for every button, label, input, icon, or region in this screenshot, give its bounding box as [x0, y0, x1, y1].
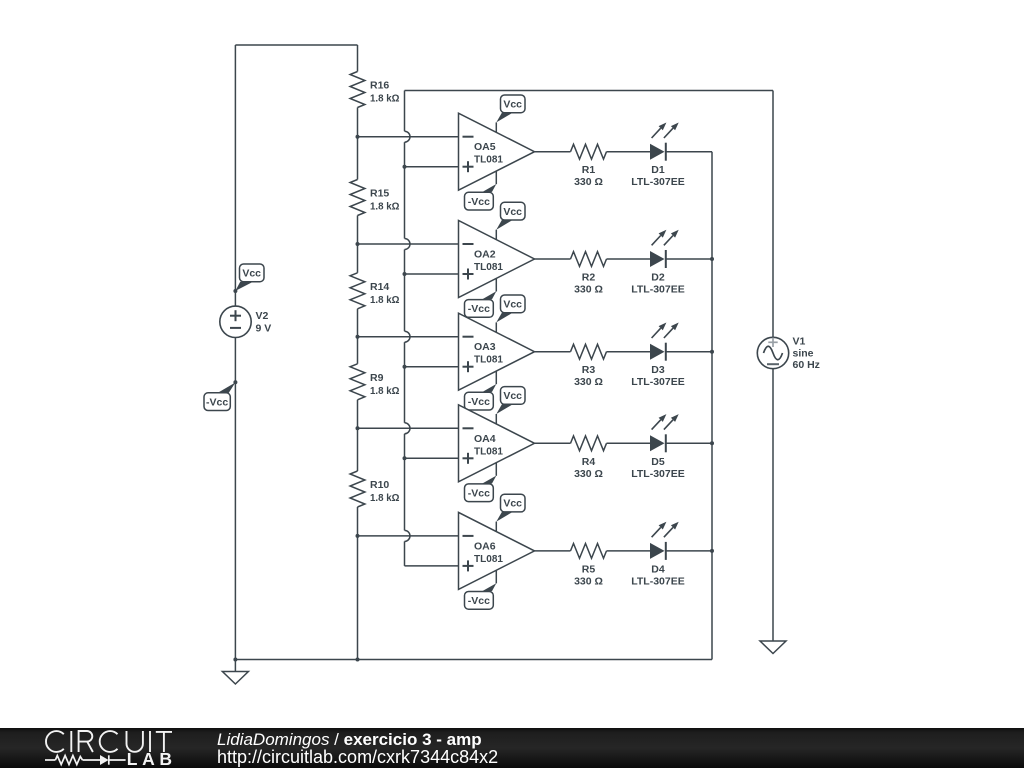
junction node: ladder tap 4 [356, 426, 360, 430]
wire LED output bus [711, 152, 713, 660]
ground (left, at bottom rail) [222, 660, 248, 685]
svg-text:LAB: LAB [127, 749, 177, 768]
wire right rail lower [772, 369, 774, 641]
junction node: ladder bottom [356, 658, 360, 662]
op-amp OA2 (TL081) [459, 221, 535, 298]
resistor R10 [350, 471, 399, 507]
svg-text:-Vcc: -Vcc [468, 303, 490, 315]
svg-text:LidiaDomingos / exercicio 3 -: LidiaDomingos / exercicio 3 - amp [217, 730, 482, 749]
junction node: signal bus tap 3 [403, 365, 407, 369]
svg-text:330 Ω: 330 Ω [574, 468, 603, 480]
wire signal bus segment 4 [404, 342, 406, 423]
voltage source V1 (sine 60 Hz) [757, 335, 820, 371]
footer bar [0, 728, 1024, 768]
power flag -Vcc (OA4 V- pin) [465, 463, 497, 502]
power flag Vcc (OA2 V+ pin) [496, 202, 525, 239]
LED D1 (LTL-307EE) [631, 123, 684, 189]
wire hop (bus over inverting-input wire, row 5) [405, 530, 411, 541]
svg-text:Vcc: Vcc [503, 99, 522, 111]
wire LED-to-bus row 3 [666, 351, 712, 353]
wire inverting input row 3 [358, 336, 459, 338]
svg-text:R14: R14 [370, 281, 389, 293]
wire left rail upper [234, 45, 236, 306]
resistor R16 [350, 72, 399, 108]
junction node: ladder tap 2 [356, 242, 360, 246]
wire left rail lower [234, 338, 236, 660]
wire op-amp output row 2 [535, 258, 571, 260]
svg-text:1.8 kΩ: 1.8 kΩ [370, 201, 400, 213]
svg-text:-Vcc: -Vcc [468, 488, 490, 500]
power flag -Vcc (at V2 negative node) [204, 380, 237, 410]
wire non-inverting input row 1 [405, 166, 459, 168]
svg-text:330 Ω: 330 Ω [574, 284, 603, 296]
wire op-amp output row 4 [535, 442, 571, 444]
svg-text:-Vcc: -Vcc [468, 396, 490, 408]
wire top-left horizontal [235, 44, 357, 46]
power flag Vcc (at V2 positive node) [233, 264, 264, 293]
wire signal bus segment 5 [404, 434, 406, 531]
junction node: signal bus tap 1 [403, 165, 407, 169]
wire hop (bus over inverting-input wire, row 2) [405, 239, 411, 250]
power flag -Vcc (OA2 V- pin) [465, 278, 497, 317]
wire signal bus segment 2 [404, 142, 406, 238]
svg-text:TL081: TL081 [474, 154, 503, 166]
LED D3 (LTL-307EE) [631, 323, 684, 389]
wire non-inverting input row 2 [405, 273, 459, 275]
wire inverting input row 4 [358, 427, 459, 429]
op-amp OA5 (TL081) [459, 113, 535, 190]
wire resistor-to-LED row 4 [607, 442, 651, 444]
junction node: ladder tap 5 [356, 534, 360, 538]
svg-text:R3: R3 [582, 364, 596, 376]
wire signal bus segment 1 [404, 91, 406, 132]
resistor R5 (330 Ohm) [571, 544, 607, 588]
resistor R3 (330 Ohm) [571, 344, 607, 388]
wire LED-to-bus row 5 [666, 550, 712, 552]
svg-text:TL081: TL081 [474, 445, 503, 457]
svg-text:D5: D5 [651, 456, 665, 468]
wire non-inverting input row 3 [405, 366, 459, 368]
svg-text:R1: R1 [582, 164, 596, 176]
svg-text:Vcc: Vcc [503, 206, 522, 218]
svg-text:LTL-307EE: LTL-307EE [631, 468, 684, 480]
svg-text:OA6: OA6 [474, 540, 496, 552]
wire inverting input row 5 [358, 535, 459, 537]
svg-text:1.8 kΩ: 1.8 kΩ [370, 492, 400, 504]
svg-text:60 Hz: 60 Hz [793, 359, 820, 371]
junction node: signal bus tap 2 [403, 272, 407, 276]
op-amp OA4 (TL081) [459, 405, 535, 482]
svg-text:1.8 kΩ: 1.8 kΩ [370, 93, 400, 105]
svg-text:D2: D2 [651, 272, 665, 284]
wire resistor-to-LED row 3 [607, 351, 651, 353]
resistor R9 [350, 364, 399, 400]
wire LED-to-bus row 1 [666, 151, 712, 153]
wire signal bus segment 6 [404, 541, 406, 566]
junction node: ladder tap 3 [356, 335, 360, 339]
svg-text:D3: D3 [651, 364, 665, 376]
svg-text:R2: R2 [582, 272, 596, 284]
svg-text:http://circuitlab.com/cxrk7344: http://circuitlab.com/cxrk7344c84x2 [217, 747, 498, 767]
LED D4 (LTL-307EE) [631, 522, 684, 588]
svg-text:TL081: TL081 [474, 553, 503, 565]
junction node: signal bus tap 4 [403, 456, 407, 460]
wire ladder segment 2 [357, 108, 359, 180]
wire hop (bus over inverting-input wire, row 4) [405, 423, 411, 434]
power flag Vcc (OA6 V+ pin) [496, 494, 525, 531]
resistor R4 (330 Ohm) [571, 436, 607, 480]
wire resistor-to-LED row 5 [607, 550, 651, 552]
svg-text:Vcc: Vcc [503, 390, 522, 402]
svg-text:OA3: OA3 [474, 341, 496, 353]
junction node: ladder tap 1 [356, 135, 360, 139]
svg-text:TL081: TL081 [474, 261, 503, 273]
svg-text:9 V: 9 V [256, 322, 272, 334]
wire non-inverting input row 5 [405, 565, 459, 567]
svg-text:330 Ω: 330 Ω [574, 176, 603, 188]
wire non-inverting input row 4 [405, 457, 459, 459]
svg-text:Vcc: Vcc [503, 498, 522, 510]
wire ladder segment 5 [357, 400, 359, 471]
svg-text:-Vcc: -Vcc [206, 396, 228, 408]
LED D5 (LTL-307EE) [631, 414, 684, 480]
power flag Vcc (OA4 V+ pin) [496, 387, 525, 424]
svg-text:V1: V1 [793, 335, 806, 347]
wire ladder segment 3 [357, 216, 359, 273]
CircuitLab logo wordmark CIRCUIT [46, 731, 172, 752]
wire signal bus segment 3 [404, 250, 406, 332]
svg-text:OA4: OA4 [474, 433, 496, 445]
svg-text:-Vcc: -Vcc [468, 196, 490, 208]
LED D2 (LTL-307EE) [631, 230, 684, 296]
svg-text:LTL-307EE: LTL-307EE [631, 575, 684, 587]
wire ladder segment 6 [357, 507, 359, 660]
svg-text:OA5: OA5 [474, 141, 496, 153]
wire resistor-to-LED row 2 [607, 258, 651, 260]
junction node: left rail at bottom [233, 658, 237, 662]
svg-text:1.8 kΩ: 1.8 kΩ [370, 385, 400, 397]
svg-text:LTL-307EE: LTL-307EE [631, 176, 684, 188]
svg-text:1.8 kΩ: 1.8 kΩ [370, 294, 400, 306]
CircuitLab logo resistor-diode glyph [45, 755, 126, 765]
svg-text:TL081: TL081 [474, 354, 503, 366]
svg-text:R9: R9 [370, 372, 384, 384]
wire LED-to-bus row 4 [666, 442, 712, 444]
junction node: LED bus tap 2 [710, 257, 714, 261]
wire op-amp output row 1 [535, 151, 571, 153]
svg-text:Vcc: Vcc [503, 299, 522, 311]
svg-text:330 Ω: 330 Ω [574, 575, 603, 587]
wire hop (bus over inverting-input wire, row 1) [405, 131, 411, 142]
junction node: LED bus tap 3 [710, 350, 714, 354]
svg-text:R16: R16 [370, 80, 389, 92]
wire right rail upper [772, 91, 774, 338]
wire op-amp output row 3 [535, 351, 571, 353]
power flag -Vcc (OA5 V- pin) [465, 171, 497, 210]
svg-text:R15: R15 [370, 188, 389, 200]
svg-text:V2: V2 [256, 310, 269, 322]
resistor R14 [350, 273, 399, 309]
wire LED-to-bus row 2 [666, 258, 712, 260]
power flag -Vcc (OA6 V- pin) [465, 570, 497, 609]
wire ladder segment 4 [357, 309, 359, 364]
svg-text:D1: D1 [651, 164, 665, 176]
wire bottom rail [235, 659, 712, 661]
voltage source V2 (9 V) [220, 306, 271, 337]
resistor R15 [350, 180, 399, 216]
wire top signal bus [405, 90, 774, 92]
svg-text:R4: R4 [582, 456, 596, 468]
junction node: LED bus tap 4 [710, 441, 714, 445]
power flag Vcc (OA3 V+ pin) [496, 295, 525, 332]
resistor R2 (330 Ohm) [571, 252, 607, 296]
svg-text:LTL-307EE: LTL-307EE [631, 284, 684, 296]
wire ladder segment 1 [357, 45, 359, 72]
wire resistor-to-LED row 1 [607, 151, 651, 153]
power flag Vcc (OA5 V+ pin) [496, 95, 525, 132]
ground (right, below V1) [760, 641, 786, 654]
svg-text:330 Ω: 330 Ω [574, 376, 603, 388]
svg-text:OA2: OA2 [474, 249, 496, 261]
svg-text:D4: D4 [651, 563, 665, 575]
svg-text:R10: R10 [370, 479, 389, 491]
svg-text:-Vcc: -Vcc [468, 595, 490, 607]
resistor R1 (330 Ohm) [571, 144, 607, 188]
op-amp OA6 (TL081) [459, 512, 535, 589]
wire op-amp output row 5 [535, 550, 571, 552]
junction node: LED bus tap 5 [710, 549, 714, 553]
wire inverting input row 2 [358, 243, 459, 245]
svg-text:R5: R5 [582, 563, 596, 575]
svg-text:sine: sine [793, 348, 814, 360]
wire hop (bus over inverting-input wire, row 3) [405, 331, 411, 342]
power flag -Vcc (OA3 V- pin) [465, 371, 497, 410]
wire inverting input row 1 [358, 136, 459, 138]
svg-text:Vcc: Vcc [242, 268, 261, 280]
op-amp OA3 (TL081) [459, 313, 535, 390]
svg-text:LTL-307EE: LTL-307EE [631, 376, 684, 388]
